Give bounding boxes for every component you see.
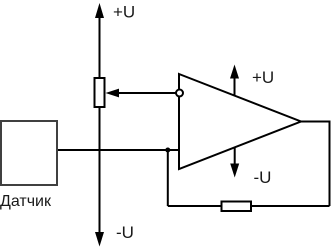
junction node [165, 148, 170, 153]
potentiometer R1 body [95, 78, 105, 107]
op-amp -U supply arrow [234, 147, 236, 167]
sensor block [1, 121, 57, 185]
op-amp U1 triangle [179, 74, 301, 169]
power +U arrow (top) [95, 3, 104, 18]
wire: sensor output horizontal [57, 149, 179, 151]
op-amp +U supply arrow [234, 75, 236, 96]
svg-text:+U: +U [113, 3, 135, 22]
wire: op-amp output to right [301, 122, 330, 207]
svg-text:-U: -U [254, 168, 272, 187]
wire: +U rail vertical [99, 14, 101, 233]
potentiometer wiper arrow [106, 89, 120, 98]
inverting input circle [176, 90, 183, 97]
wire: feedback bottom horizontal [168, 205, 330, 207]
svg-text:+U: +U [252, 68, 274, 87]
wire: wiper to inverting input [117, 92, 176, 94]
wire: feedback vertical up to sensor line [167, 150, 169, 206]
feedback resistor R2 [222, 202, 252, 212]
power -U arrow (bottom) [95, 232, 104, 247]
svg-text:Датчик: Датчик [0, 193, 52, 210]
svg-text:-U: -U [116, 223, 134, 242]
